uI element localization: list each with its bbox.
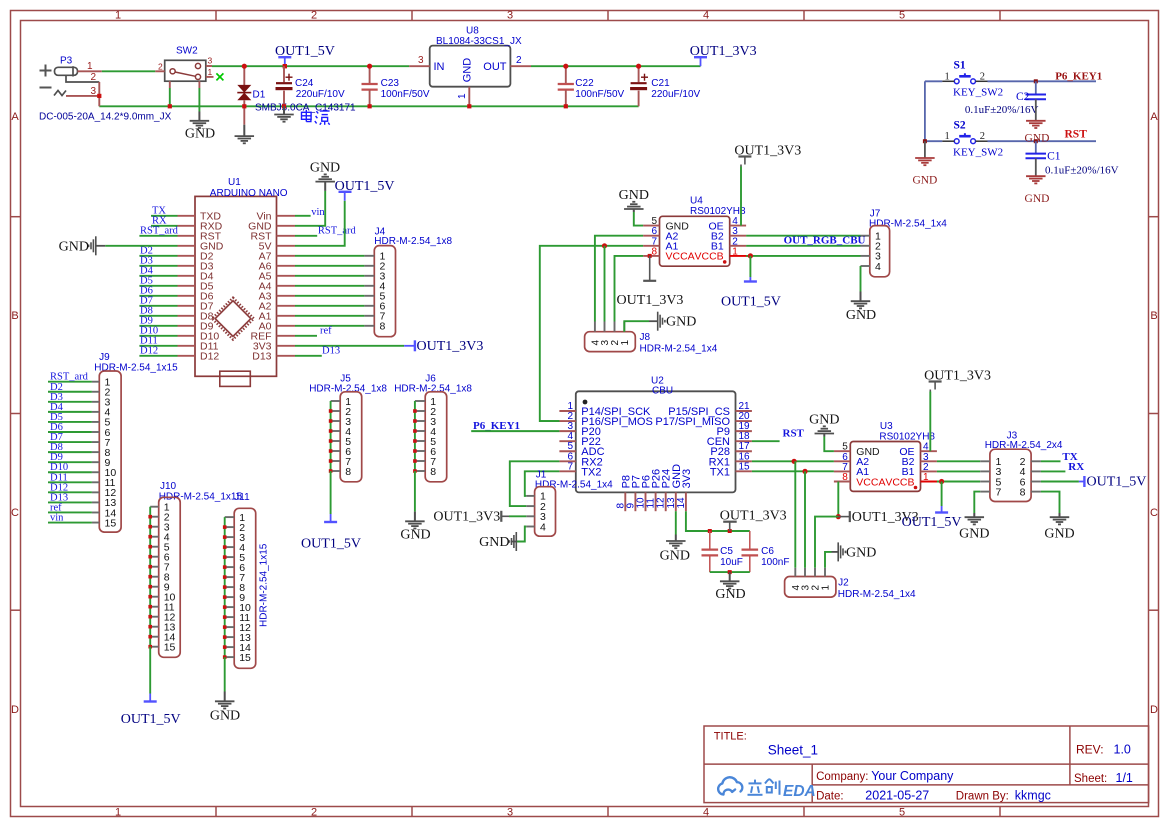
wire U1 D4 net stub <box>139 275 177 277</box>
junction C23 on top rail <box>367 64 372 69</box>
wire U1 D6 net stub <box>139 295 177 297</box>
ground flag stem right of J8 <box>649 320 658 322</box>
header J2 pin 4 stub <box>794 568 796 577</box>
switch S1 actuator bar <box>959 73 971 76</box>
border tick left B/C <box>10 413 20 415</box>
mcu U1 right pin A1 stub <box>277 315 296 317</box>
svg-text:HDR-M-2.54_1x4: HDR-M-2.54_1x4 <box>869 218 947 229</box>
capacitor C23 plates <box>362 84 378 90</box>
ground stem below C24 <box>283 106 285 114</box>
svg-text:4: 4 <box>540 521 546 533</box>
svg-text:1: 1 <box>945 71 950 82</box>
wire J6 to GND <box>414 471 416 512</box>
svg-text:15: 15 <box>105 517 117 529</box>
svg-text:D: D <box>11 704 19 716</box>
svg-text:8: 8 <box>1020 486 1026 498</box>
wire J3 pin6 to OUT1_5V flag <box>1041 481 1079 483</box>
switch SW2 bottom pin stub left <box>169 81 171 88</box>
mcu U1 right pin A3 stub <box>277 295 296 297</box>
svg-text:220uF/10V: 220uF/10V <box>651 89 700 100</box>
svg-text:2: 2 <box>158 62 163 72</box>
ic U3 pin 2 stub <box>921 470 937 472</box>
svg-text:0.1uF±20%/16V: 0.1uF±20%/16V <box>965 104 1039 116</box>
wire J3 pin7 to GND <box>974 492 980 513</box>
mcu U1 left pin D10 stub <box>178 335 196 337</box>
svg-text:OUT1_3V3: OUT1_3V3 <box>734 144 801 159</box>
mcu U1 right pin D13 stub <box>277 355 296 357</box>
header J4 pin 5 stub <box>364 295 374 297</box>
header J5 pin 5 stub <box>331 440 341 442</box>
wire J3 pin8 to GND <box>1041 492 1060 513</box>
svg-text:OUT1_3V3: OUT1_3V3 <box>433 509 500 524</box>
switch S2 contact circles <box>954 139 975 144</box>
svg-text:C: C <box>11 507 19 519</box>
wire U4 OE up to OUT1_3V3 flag <box>740 167 742 226</box>
header J9 pin 4 stub <box>92 411 99 413</box>
capacitor C21 plates polarized <box>631 82 647 84</box>
module U2 left pin 1 stub <box>559 410 575 412</box>
wire U1 D8 net stub <box>139 315 177 317</box>
junction C1 on RST wire <box>1034 139 1038 143</box>
junction J10 pin 10 <box>148 595 152 599</box>
ground flag arrow left of U1 <box>95 236 97 255</box>
junction J11 pin 11 <box>223 615 227 619</box>
header J3 pin 4 stub <box>1031 470 1041 472</box>
junction J6 pin 4 <box>413 429 417 433</box>
capacitor C1 top pin <box>1035 141 1037 153</box>
svg-text:GND: GND <box>846 308 876 323</box>
connector P3 minus sign <box>40 87 52 89</box>
wire S2 net RST <box>988 140 1097 142</box>
svg-text:7: 7 <box>567 461 573 472</box>
junction C22 on top rail <box>563 64 568 69</box>
power flag OUT1_5V below J10 symbol <box>144 694 157 702</box>
mcu U1 left pin D9 stub <box>178 325 196 327</box>
junction J10 pin 3 <box>148 525 152 529</box>
junction J6 pin 8 <box>413 469 417 473</box>
svg-text:GND: GND <box>59 239 89 254</box>
header J9 pin 3 stub <box>92 401 99 403</box>
capacitor C6 plates <box>742 550 759 556</box>
junction J6 pin 5 <box>413 439 417 443</box>
header J4 pin 3 stub <box>364 275 374 277</box>
svg-text:HDR-M-2.54_1x15: HDR-M-2.54_1x15 <box>259 543 270 627</box>
wire bottom rail GND net <box>99 105 638 107</box>
capacitor C1 bottom pin <box>1035 158 1037 176</box>
svg-text:J2: J2 <box>838 578 849 589</box>
header J10 pin 3 stub <box>150 526 159 528</box>
mcu U1 left pin GND stub <box>178 245 196 247</box>
module U2 right pin 17 stub <box>736 450 752 452</box>
svg-text:U1: U1 <box>228 177 241 188</box>
power flag OUT1_3V3 above U3 symbol <box>929 382 942 392</box>
svg-text:5: 5 <box>899 10 905 22</box>
wire J11 to GND <box>224 657 226 691</box>
svg-text:vin: vin <box>50 513 64 524</box>
capacitor C5 top pin <box>709 531 711 549</box>
wire J9 pin 15 net <box>48 522 92 524</box>
svg-text:GND: GND <box>400 528 430 543</box>
switch SW2 pole circle <box>170 69 175 74</box>
svg-text:RX: RX <box>1068 461 1084 473</box>
capacitor C24 plus sign <box>286 74 293 81</box>
junction J11 pin 10 <box>223 605 227 609</box>
svg-text:IN: IN <box>434 61 445 73</box>
wire U1 Vin stub <box>295 215 311 217</box>
header J5 pin 2 stub <box>331 410 341 412</box>
title block outline <box>704 726 1149 803</box>
wire OUT1_5V drop below U3 VCCB <box>941 482 943 507</box>
svg-text:C23: C23 <box>381 78 400 89</box>
ic U4 pin 5 stub <box>643 225 659 227</box>
capacitor C24 plates polarized <box>276 82 292 84</box>
header J3 pin 2 stub <box>1031 460 1041 462</box>
junction J11 pin 15 <box>223 655 227 659</box>
title block divider horizontal date row <box>812 784 1148 786</box>
header J10 pin 12 stub <box>150 616 159 618</box>
border tick bottom 2 <box>411 807 413 817</box>
junction J11 pin 5 <box>223 555 227 559</box>
junction SW2 bottom-left on GND rail <box>168 104 172 108</box>
svg-text:1: 1 <box>115 10 121 22</box>
mcu U1 left pin TXD stub <box>178 215 196 217</box>
mcu U1 chip diamond symbol <box>212 298 254 340</box>
svg-text:S1: S1 <box>954 60 966 72</box>
junction J6 pin 6 <box>413 449 417 453</box>
wire U1 D11 net stub <box>139 345 177 347</box>
title block divider horizontal main <box>704 763 1149 765</box>
svg-text:220uF/10V: 220uF/10V <box>296 89 345 100</box>
header J11 pin 7 stub <box>225 576 235 578</box>
svg-text:ARDUINO NANO: ARDUINO NANO <box>210 188 288 199</box>
wire J11 common vertical <box>224 517 226 657</box>
header J4 pin 2 stub <box>364 265 374 267</box>
wire U1 5V pin to OUT1_5V flag <box>295 201 345 246</box>
junction J11 pin 9 <box>223 595 227 599</box>
svg-text:HDR-M-2.54_1x4: HDR-M-2.54_1x4 <box>535 480 613 491</box>
junction OUT1_5V flag on top rail <box>283 64 287 68</box>
border tick top 2 <box>411 10 413 20</box>
ic U4 pin 4 stub <box>730 225 746 227</box>
ground symbol below D1 <box>235 135 255 137</box>
wire U2 GND pin down <box>675 511 677 534</box>
mcu U1 left pin RST stub <box>178 235 196 237</box>
mcu U1 left pin D8 stub <box>178 315 196 317</box>
wire left column S1 to S2 <box>924 81 926 141</box>
border tick top 3 <box>607 10 609 20</box>
wire U4 B1 to J7 pin 2 <box>746 245 860 247</box>
svg-text:OUT1_5V: OUT1_5V <box>301 537 361 552</box>
power flag OUT1_5V below J5 symbol <box>324 514 337 522</box>
junction J5 pin 7 <box>329 459 333 463</box>
wire U1 D13 stub <box>295 355 322 357</box>
mcu U1 right pin 5V stub <box>277 245 296 247</box>
ground symbol red below C2 <box>1026 120 1046 122</box>
wire U4 B2 to J7 pin 1 <box>746 235 860 237</box>
ground flag stem right of J2 pin1 <box>832 551 839 553</box>
mcu U1 right pin GND stub <box>277 225 296 227</box>
wire J9 pin 9 net <box>48 461 92 463</box>
capacitor C22 plates <box>558 84 574 90</box>
header J11 pin 10 stub <box>225 606 235 608</box>
module U2 right pin 15 stub <box>736 470 752 472</box>
wire U1 D7 net stub <box>139 305 177 307</box>
svg-text:3: 3 <box>507 807 513 819</box>
power flag OUT1_5V top rail symbol <box>278 57 291 66</box>
svg-text:C: C <box>1150 507 1158 519</box>
module U2 bottom pin 13 stub <box>675 492 677 511</box>
module U2 bottom pin 8 stub <box>624 492 626 511</box>
svg-text:RST_ard: RST_ard <box>140 226 179 237</box>
border tick top 1 <box>215 10 217 20</box>
capacitor C21 plus sign <box>641 74 648 81</box>
ground stem below J11 <box>224 692 226 702</box>
header J3 pin 5 stub <box>980 481 990 483</box>
border tick left C/D <box>10 609 20 611</box>
svg-text:4: 4 <box>875 261 881 273</box>
power flag OUT1_3V3 top rail symbol <box>694 57 707 66</box>
header J6 body box <box>425 392 447 482</box>
ic U3 body box <box>850 442 920 492</box>
svg-text:3: 3 <box>208 56 213 66</box>
module U2 left pin 3 stub <box>559 430 575 432</box>
junction J10 pin 4 <box>148 535 152 539</box>
wire U2 TX2 to J1 pin 1 <box>525 471 560 496</box>
svg-text:KEY_SW2: KEY_SW2 <box>953 147 1003 159</box>
ic U3 pin 7 stub <box>834 470 850 472</box>
wire U3 B2 to J3 pin1 <box>937 460 980 462</box>
border tick bottom 3 <box>607 807 609 817</box>
power flag OUT1_3V3 above U4 symbol <box>738 157 751 167</box>
junction J10 pin 9 <box>148 585 152 589</box>
junction U4 VCCB net <box>748 253 753 258</box>
svg-text:HDR-M-2.54_1x8: HDR-M-2.54_1x8 <box>309 384 387 395</box>
mcu U1 right pin 3V3 stub <box>277 345 296 347</box>
mcu U1 left pin D4 stub <box>178 275 196 277</box>
wire J9 pin 14 net <box>48 511 92 513</box>
ic U4 pin 3 stub <box>730 235 746 237</box>
wire U1 RXD net stub <box>151 225 178 227</box>
junction J5 pin 8 <box>329 469 333 473</box>
wire J9 pin 11 net <box>48 481 92 483</box>
logo glyph CHUANG (创) <box>765 779 780 795</box>
capacitor C24 top pin <box>283 66 285 82</box>
wire J2 pin 1 to GND flag <box>825 552 832 568</box>
svg-text:14: 14 <box>676 497 687 509</box>
header J9 pin 15 stub <box>92 522 99 524</box>
wire S2 left <box>925 140 942 142</box>
header J10 pin 10 stub <box>150 596 159 598</box>
header J10 pin 2 stub <box>150 516 159 518</box>
ic U4 pin 2 stub <box>730 245 746 247</box>
regulator U8 pin 1 stub <box>468 87 470 107</box>
ground symbol below J11 <box>215 700 235 702</box>
svg-text:TX1: TX1 <box>710 466 730 478</box>
junction J6 pin 7 <box>413 459 417 463</box>
capacitor C23 bottom pin <box>369 90 371 107</box>
svg-text:3V3: 3V3 <box>681 469 693 489</box>
ic U4 pin 6 stub <box>643 235 659 237</box>
junction J11 pin 13 <box>223 635 227 639</box>
svg-text:2: 2 <box>516 55 522 66</box>
header J1 pin 4 stub <box>526 526 534 528</box>
header J11 pin 11 stub <box>225 616 235 618</box>
svg-text:OUT1_3V3: OUT1_3V3 <box>720 509 787 524</box>
border tick bottom 1 <box>215 807 217 817</box>
mcu U1 left pin RXD stub <box>178 225 196 227</box>
ground symbol above U1 <box>315 181 335 183</box>
svg-text:15: 15 <box>739 461 751 472</box>
header J11 pin 6 stub <box>225 566 235 568</box>
wire J9 pin 6 net <box>48 431 92 433</box>
wire P3 pin1 to SW2 <box>102 70 156 72</box>
junction OUT1_3V3 stem at C5 rail <box>728 529 732 533</box>
svg-text:2: 2 <box>980 71 985 82</box>
svg-text:1: 1 <box>732 246 738 257</box>
header J4 pin 6 stub <box>364 305 374 307</box>
svg-text:OUT1_3V3: OUT1_3V3 <box>617 293 684 308</box>
svg-text:2: 2 <box>91 72 97 83</box>
capacitor C24 bottom pin <box>283 91 285 107</box>
wire U2 RX2 to J1 pin 2 <box>510 461 560 506</box>
junction J10 pin 2 <box>148 515 152 519</box>
header J8 pin 4 stub <box>594 322 596 332</box>
svg-text:4: 4 <box>703 807 709 819</box>
capacitor C1 plates blue <box>1026 154 1047 159</box>
wire J9 pin 4 net <box>48 411 92 413</box>
ic U4 body box <box>660 216 730 266</box>
ic U4 pin 8 stub <box>643 255 659 257</box>
header J10 pin 9 stub <box>150 586 159 588</box>
svg-text:U4: U4 <box>690 196 703 207</box>
wire J9 pin 13 net <box>48 501 92 503</box>
wire U1 D9 net stub <box>139 325 177 327</box>
ground stem below left column <box>924 141 926 158</box>
header J10 pin 5 stub <box>150 546 159 548</box>
mcu U1 right pin A2 stub <box>277 305 296 307</box>
svg-text:J9: J9 <box>99 352 110 363</box>
power flag OUT1_3V3 at J2 symbol <box>838 511 850 522</box>
svg-text:P6_KEY1: P6_KEY1 <box>1055 70 1102 82</box>
junction J10 pin 14 <box>148 635 152 639</box>
capacitor C6 bottom pin <box>749 556 751 573</box>
module U2 bottom pin 9 stub <box>634 492 636 511</box>
svg-text:0.1uF±20%/16V: 0.1uF±20%/16V <box>1045 165 1119 177</box>
header J5 body box <box>340 392 362 482</box>
header J7 pin 4 stub <box>861 265 870 267</box>
svg-text:OUT1_3V3: OUT1_3V3 <box>924 369 991 384</box>
junction J10 pin 6 <box>148 555 152 559</box>
ground flag stem left of U1 <box>96 245 105 247</box>
wire U4 GND pin to ground above <box>634 212 643 226</box>
header J10 pin 7 stub <box>150 566 159 568</box>
mcu U1 right pin A0 stub <box>277 325 296 327</box>
svg-text:OUT1_3V3: OUT1_3V3 <box>417 339 484 354</box>
junction C24 on bottom rail <box>282 104 286 108</box>
header J10 pin 1 stub <box>150 506 159 508</box>
mcu U1 left pin D2 stub <box>178 255 196 257</box>
power flag OUT1_3V3 right of U1 symbol <box>404 340 415 351</box>
junction OUT1_5V below U3 VCCB <box>939 479 944 484</box>
module U2 bottom pin 14 stub <box>685 492 687 511</box>
svg-text:HDR-M-2.54_1x8: HDR-M-2.54_1x8 <box>394 384 472 395</box>
wire top rail SW2 to U8 IN <box>212 65 409 67</box>
switch SW2 pin 2 stub <box>155 70 164 72</box>
header J9 pin 13 stub <box>92 501 99 503</box>
module U2 bottom pin 12 stub <box>665 492 667 511</box>
svg-text:C5: C5 <box>720 546 733 557</box>
wire J8 pin 3 vertical <box>604 246 606 322</box>
header J5 pin 6 stub <box>331 450 341 452</box>
module U2 right pin 20 stub <box>736 420 752 422</box>
svg-text:kkmgc: kkmgc <box>1015 789 1051 803</box>
module U2 left pin 6 stub <box>559 460 575 462</box>
header J7 pin 2 stub <box>861 245 870 247</box>
svg-text:U3: U3 <box>880 421 893 432</box>
junction U4 VCCA stub <box>648 254 652 258</box>
wire U3 B1 to J3 pin3 <box>937 470 980 472</box>
switch S2 pin 1 lead <box>942 140 954 142</box>
power flag OUT1_5V above U1 symbol <box>339 192 352 201</box>
header J1 pin 1 stub <box>526 495 534 497</box>
svg-text:OUT_RGB_CBU: OUT_RGB_CBU <box>784 235 866 247</box>
ground symbol below J7 <box>851 300 871 302</box>
svg-text:D: D <box>1150 704 1158 716</box>
ground symbol below SW2 <box>190 120 210 122</box>
header J8 pin 1 stub <box>623 322 625 332</box>
wire U1 TXD net stub <box>151 215 178 217</box>
wire U2 P16 net vertical from U4 A1 <box>540 420 560 422</box>
wire U4 A1 to U2 P16 <box>540 246 643 421</box>
svg-text:Company:: Company: <box>816 771 868 783</box>
module U2 left pin 7 stub <box>559 470 575 472</box>
mcu U1 body box <box>195 196 277 376</box>
header J8 body box <box>585 332 636 352</box>
header J6 pin 3 stub <box>415 420 425 422</box>
svg-text:Drawn By:: Drawn By: <box>956 791 1009 803</box>
svg-text:1.0: 1.0 <box>1114 743 1131 757</box>
mcu U1 left pin D3 stub <box>178 265 196 267</box>
switch S2 actuator bar <box>959 133 971 136</box>
wire J2 pin 2 to OUT1_3V3 junction <box>815 517 838 568</box>
header J10 pin 4 stub <box>150 536 159 538</box>
wire P6_KEY1 to U2 P20 <box>471 430 559 432</box>
junction C23 on bottom rail <box>368 104 372 108</box>
svg-text:VCCB: VCCB <box>695 251 724 263</box>
header J4 pin 1 stub <box>364 255 374 257</box>
header J9 body box <box>99 371 121 532</box>
wire J10 to OUT1_5V flag <box>149 647 151 694</box>
header J5 pin 8 stub <box>331 470 341 472</box>
header J6 pin 2 stub <box>415 410 425 412</box>
ground stem below U2 <box>675 535 677 541</box>
junction J10 pin 8 <box>148 575 152 579</box>
wire U1 GND pin to ground symbol above <box>295 191 325 226</box>
wire U1 A2 to J4 pin 6 <box>295 305 364 307</box>
diode D1 bottom pin <box>243 100 245 124</box>
header J6 pin 8 stub <box>415 470 425 472</box>
junction J11 pin 3 <box>223 535 227 539</box>
wire S1 net P6_KEY1 <box>988 80 1097 82</box>
ground symbol below J6 <box>405 520 425 522</box>
capacitor C6 top pin <box>749 531 751 549</box>
ground stem below SW2 <box>198 112 200 121</box>
wire U2 3V3 pin to C5 C6 rail <box>686 511 750 531</box>
wire U1 GND pin to ground flag <box>105 245 177 247</box>
wire OUT1_5V drop below U4 VCCB <box>749 256 751 277</box>
header J7 pin 3 stub <box>861 255 870 257</box>
wire J9 pin 12 net <box>48 491 92 493</box>
